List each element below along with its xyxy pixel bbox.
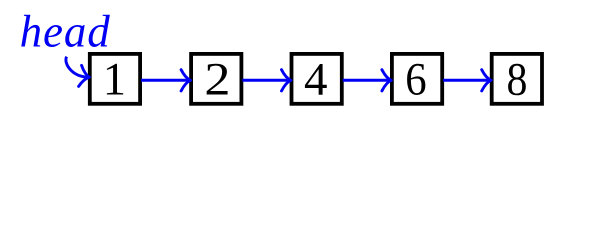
svg-text:2: 2 <box>204 53 230 105</box>
svg-text:6: 6 <box>405 53 426 105</box>
svg-text:head: head <box>20 6 111 56</box>
svg-text:1: 1 <box>103 53 126 105</box>
svg-text:8: 8 <box>506 52 527 105</box>
svg-text:4: 4 <box>304 54 328 106</box>
